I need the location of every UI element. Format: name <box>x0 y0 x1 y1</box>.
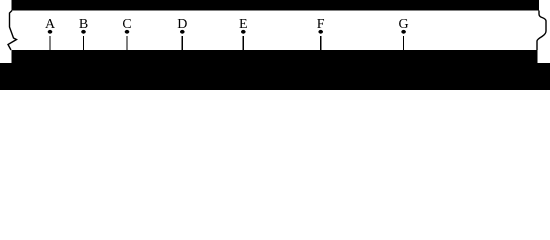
point E dot <box>241 30 246 34</box>
point C dot <box>125 30 130 34</box>
svg-text:G: G <box>399 17 409 32</box>
point A tick <box>49 36 51 50</box>
point A dot <box>48 30 53 34</box>
top black band <box>12 0 540 11</box>
svg-text:F: F <box>317 17 325 32</box>
bottom black band <box>12 50 538 90</box>
svg-text:D: D <box>177 17 187 32</box>
point B dot <box>81 30 86 34</box>
svg-text:B: B <box>79 17 88 32</box>
svg-text:E: E <box>239 17 248 32</box>
right torn-edge squiggle <box>537 11 546 51</box>
point F tick <box>320 36 322 50</box>
svg-text:A: A <box>45 17 56 32</box>
point F dot <box>318 30 323 34</box>
point B tick <box>83 36 85 50</box>
point G tick <box>403 36 405 50</box>
point D tick <box>181 36 183 50</box>
left torn-edge squiggle <box>8 11 17 51</box>
point E tick <box>242 36 244 50</box>
full-width bottom black bar <box>0 63 550 90</box>
svg-text:C: C <box>122 17 131 32</box>
point G dot <box>401 30 406 34</box>
point D dot <box>180 30 185 34</box>
point C tick <box>126 36 128 50</box>
